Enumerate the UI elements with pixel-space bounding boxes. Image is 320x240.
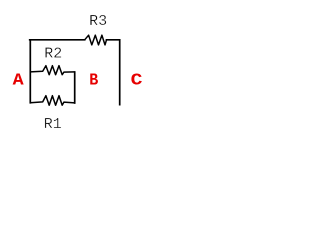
node B label [89,71,98,89]
wire: left vertical bus from top wire down to R1 branch (node A) [29,40,31,103]
svg-text:R2: R2 [44,46,62,63]
node A label [13,71,24,89]
svg-text:C: C [131,72,143,90]
label R3 [89,13,107,30]
resistor R2 (top branch of parallel block, with leads) [30,66,74,75]
resistor R1 (bottom branch of parallel block, with leads) [30,96,74,106]
wire: top horizontal lead from top-left corner to R3 [30,39,85,41]
svg-text:R1: R1 [44,116,62,133]
label R1 [44,116,62,133]
wire: R3 to top-right corner, then right vertical down (node C) [107,40,120,105]
wire: right vertical of parallel block joining R2 and R1 [74,72,76,103]
svg-text:B: B [89,71,98,89]
svg-text:R3: R3 [89,13,107,30]
resistor R3 (zigzag on top wire) [85,35,107,45]
node C label [131,72,143,90]
label R2 [44,46,62,63]
svg-text:A: A [13,71,24,89]
